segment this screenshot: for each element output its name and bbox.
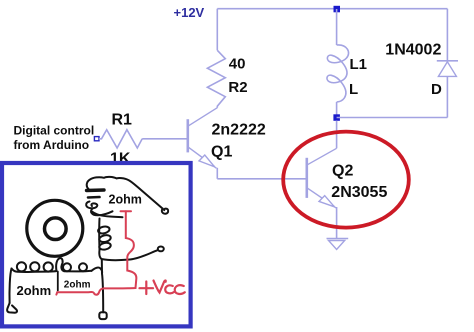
svg-text:D: D [431, 81, 442, 98]
node A (top rail junction) [334, 6, 341, 13]
coil bottom (hand drawn) [7, 258, 107, 319]
svg-text:2ohm: 2ohm [64, 280, 91, 291]
ground [327, 239, 349, 250]
svg-text:from Arduino: from Arduino [14, 138, 90, 152]
svg-text:R1: R1 [112, 112, 133, 129]
svg-text:1N4002: 1N4002 [385, 41, 441, 58]
svg-text:40: 40 [229, 55, 246, 72]
wire Q2 emitter down [336, 207, 338, 239]
svg-text:Q2: Q2 [332, 162, 353, 179]
wire node A to inductor [336, 9, 338, 45]
wire Q1 emitter down [216, 168, 218, 179]
speaker donut outer [27, 200, 83, 256]
svg-text:2ohm: 2ohm [109, 193, 142, 207]
svg-text:2N3055: 2N3055 [331, 184, 387, 201]
wire +12V vertical drop [216, 9, 218, 51]
svg-text:Digital control: Digital control [14, 124, 95, 138]
svg-text:R2: R2 [228, 79, 247, 96]
resistor R2 [207, 50, 225, 107]
blue frame box [2, 163, 191, 326]
port square (input terminal) [94, 137, 99, 141]
wire R1 to Q1 base [142, 138, 186, 140]
resistor R1 [99, 130, 142, 148]
svg-text:2n2222: 2n2222 [212, 122, 266, 139]
svg-text:L1: L1 [350, 56, 368, 73]
svg-text:Q1: Q1 [211, 144, 232, 161]
wire right branch upper [446, 9, 448, 61]
transistor Q1 [188, 108, 218, 169]
wire inductor to node B [336, 102, 338, 118]
red hookup wire [56, 211, 136, 294]
text Digital control from Arduino [14, 124, 95, 152]
wire node B down to Q2 collector [336, 121, 338, 149]
transistor Q2 [307, 148, 337, 208]
wire Q1 emitter to Q2 base [217, 178, 306, 180]
svg-text:+12V: +12V [174, 5, 205, 20]
speaker donut inner [45, 218, 67, 240]
wire right branch lower [446, 76, 448, 117]
diode D [437, 61, 458, 77]
coil top (hand drawn) [86, 177, 168, 215]
coil middle (hand drawn) [92, 212, 164, 274]
+Vcc handwriting [140, 280, 185, 294]
svg-text:L: L [349, 81, 358, 98]
wire node B to diode branch [337, 117, 448, 119]
red ellipse highlight around Q2 [283, 132, 409, 228]
svg-text:2ohm: 2ohm [17, 283, 52, 298]
inductor L1 [327, 45, 349, 102]
node B (inductor bottom junction) [333, 114, 340, 121]
wire top horizontal rail [217, 8, 447, 10]
